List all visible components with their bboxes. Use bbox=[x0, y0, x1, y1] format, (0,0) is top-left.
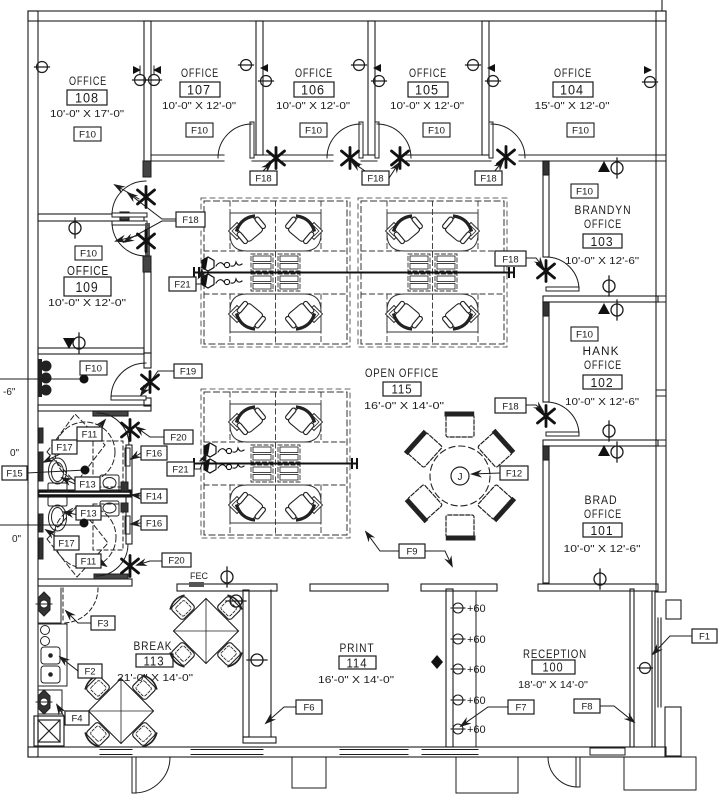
door swing arrows bbox=[115, 185, 140, 241]
svg-text:F14: F14 bbox=[146, 492, 162, 503]
wall: right exterior upper bbox=[656, 11, 666, 592]
door break exterior bbox=[132, 757, 170, 793]
svg-text:RECEPTION: RECEPTION bbox=[523, 649, 587, 661]
grab bars upper bbox=[39, 428, 43, 443]
wall: corridor west below doors bbox=[144, 272, 151, 353]
door restroom lower bbox=[94, 544, 128, 579]
label F1 bbox=[692, 629, 717, 643]
wall: hank/brad divider bbox=[543, 440, 658, 446]
workstation pod upper-left bbox=[201, 198, 350, 347]
svg-text:106: 106 bbox=[301, 83, 325, 98]
svg-text:15'-0" X 12'-0": 15'-0" X 12'-0" bbox=[535, 101, 611, 112]
spine upper pods bbox=[194, 268, 514, 277]
svg-text:OFFICE: OFFICE bbox=[554, 68, 592, 80]
door office 105 bbox=[375, 122, 411, 158]
break table 2 bbox=[84, 674, 159, 749]
svg-text:F2: F2 bbox=[84, 667, 95, 678]
wall: left exterior bbox=[28, 11, 38, 757]
right wall keynote bbox=[643, 66, 658, 88]
wall: open office / reception seg3 bbox=[421, 584, 497, 591]
wall: brandyn/hank divider bbox=[543, 296, 658, 302]
stoop 1 bbox=[292, 757, 326, 788]
label F20 upper bbox=[164, 430, 193, 444]
svg-text:F10: F10 bbox=[428, 126, 445, 137]
label F18 corridor bbox=[176, 212, 205, 227]
label F6 bbox=[296, 700, 322, 714]
wall: reception east bbox=[630, 589, 634, 747]
door corridor upper bbox=[112, 181, 147, 217]
phi above hank bottom wall bbox=[603, 421, 615, 441]
svg-text:16'-0" X 14'-0": 16'-0" X 14'-0" bbox=[364, 401, 445, 412]
label F9 bbox=[399, 544, 425, 558]
label F18 office104 bbox=[475, 171, 502, 185]
svg-text:10'-0" X 12'-6": 10'-0" X 12'-6" bbox=[564, 544, 642, 555]
accessory lower bbox=[121, 503, 128, 512]
svg-text:F17: F17 bbox=[56, 443, 72, 454]
dot leader vestibule bbox=[0, 375, 89, 384]
wall: divider office 107/106 bbox=[256, 21, 263, 155]
jamb dark corridor top bbox=[143, 161, 151, 177]
vestibule coat hooks bbox=[39, 359, 52, 397]
label F11 lower bbox=[76, 554, 101, 568]
svg-text:F8: F8 bbox=[581, 702, 592, 713]
door X marks bbox=[122, 147, 555, 577]
svg-text:F21: F21 bbox=[174, 280, 190, 291]
svg-text:OFFICE: OFFICE bbox=[584, 509, 622, 521]
svg-text:F16: F16 bbox=[146, 519, 162, 530]
reception west screen line bbox=[475, 592, 477, 747]
label F4 bbox=[65, 711, 89, 725]
label break 113 bbox=[117, 641, 194, 684]
door brandyn 103 bbox=[546, 257, 579, 291]
svg-text:10'-0" X 17'-0": 10'-0" X 17'-0" bbox=[50, 109, 125, 120]
wall: restroom top bbox=[38, 405, 151, 411]
mop sink F4 bbox=[36, 690, 62, 714]
svg-text:F6: F6 bbox=[303, 703, 314, 714]
label F8 bbox=[574, 699, 600, 713]
label open office 115 bbox=[364, 368, 445, 412]
svg-text:OFFICE: OFFICE bbox=[69, 76, 107, 88]
round conference table bbox=[407, 414, 514, 538]
svg-text:F13: F13 bbox=[80, 509, 96, 520]
svg-text:OFFICE: OFFICE bbox=[181, 68, 219, 80]
jamb dark corridor bottom bbox=[143, 256, 151, 272]
label F13 lower bbox=[76, 506, 101, 520]
svg-text:F3: F3 bbox=[97, 619, 108, 630]
wall: restroom bottom bbox=[38, 579, 132, 586]
divider 260 symbols bbox=[239, 60, 274, 87]
toilet upper bbox=[48, 458, 67, 492]
room labels bbox=[48, 68, 641, 691]
svg-text:10'-0" X 12'-0": 10'-0" X 12'-0" bbox=[162, 101, 237, 112]
phi above brandyn bottom wall bbox=[603, 276, 615, 296]
svg-text:F18: F18 bbox=[502, 402, 518, 413]
door leaf reception storefront bbox=[590, 748, 625, 755]
wall keynote symbols bbox=[0, 60, 658, 748]
svg-text:100: 100 bbox=[543, 661, 564, 675]
dispenser lower bbox=[125, 516, 130, 534]
svg-text:F21: F21 bbox=[172, 465, 188, 476]
svg-text:OFFICE: OFFICE bbox=[67, 263, 109, 278]
clear floor dashed upper bbox=[93, 441, 123, 487]
label office 107 bbox=[162, 68, 237, 112]
label F19 bbox=[174, 364, 202, 378]
wall: bottom exterior bbox=[28, 747, 666, 757]
svg-text:F13: F13 bbox=[79, 480, 95, 491]
divider 373 symbols bbox=[352, 60, 387, 87]
svg-text:16'-0" X 14'-0": 16'-0" X 14'-0" bbox=[318, 675, 395, 686]
triangle+phi below hank top wall bbox=[598, 300, 623, 320]
label office 104 bbox=[535, 68, 611, 112]
svg-text:107: 107 bbox=[187, 83, 211, 98]
label office 108 bbox=[50, 76, 125, 120]
grab bars lower bbox=[39, 514, 43, 532]
svg-text:F7: F7 bbox=[515, 703, 526, 714]
power pole upper pod b bbox=[202, 274, 242, 288]
svg-text:F18: F18 bbox=[367, 174, 383, 185]
svg-text:F10: F10 bbox=[191, 126, 208, 137]
pier bottom right bbox=[665, 707, 681, 756]
svg-text:21'-0" X 14'-0": 21'-0" X 14'-0" bbox=[117, 673, 194, 684]
wall: bottom of offices 107-104 bbox=[151, 155, 656, 161]
wall: brad office bottom seg4 bbox=[538, 584, 658, 591]
svg-text:OFFICE: OFFICE bbox=[295, 68, 333, 80]
svg-text:F10: F10 bbox=[576, 187, 593, 198]
wall: chase bottom cap bbox=[243, 737, 276, 743]
label F2 bbox=[78, 664, 102, 678]
F10 tag boxes bbox=[74, 123, 598, 375]
keynote reception east wall bbox=[638, 663, 653, 674]
door reception exterior bbox=[548, 757, 580, 787]
svg-text:109: 109 bbox=[76, 280, 99, 296]
wall: divider office 106/105 bbox=[368, 21, 375, 155]
svg-text:F18: F18 bbox=[182, 215, 198, 226]
svg-text:OFFICE: OFFICE bbox=[584, 360, 622, 372]
svg-text:F4: F4 bbox=[71, 714, 82, 725]
grid line top-right corner bbox=[661, 0, 663, 11]
keyed note labels with leaders bbox=[2, 161, 717, 726]
break counter sinks F2 bbox=[38, 624, 67, 686]
label office 105 bbox=[390, 68, 465, 112]
svg-text:F18: F18 bbox=[255, 174, 271, 185]
spine lower pod bbox=[194, 459, 357, 468]
label brad office 101 bbox=[564, 495, 642, 555]
workstation pod lower bbox=[201, 389, 350, 538]
wall: print/reception divider bbox=[446, 589, 453, 747]
diamond print wall bbox=[431, 655, 443, 669]
door closet dashed break bbox=[63, 588, 98, 623]
svg-text:103: 103 bbox=[591, 234, 614, 249]
svg-text:OFFICE: OFFICE bbox=[409, 68, 447, 80]
wall: divider office 105/104 bbox=[482, 21, 489, 155]
jamb dark brad top bbox=[543, 446, 549, 460]
label F18 brandyn bbox=[495, 251, 526, 266]
svg-text:10'-0" X 12'-6": 10'-0" X 12'-6" bbox=[565, 256, 640, 267]
svg-text:BREAK: BREAK bbox=[134, 641, 173, 653]
svg-text:0": 0" bbox=[12, 534, 22, 545]
workstation pod upper-right bbox=[358, 198, 507, 347]
label F21 upper bbox=[169, 277, 196, 291]
phi below 108/109 wall bbox=[69, 218, 81, 238]
wall: hank 102 west bbox=[543, 302, 549, 402]
label office 109 bbox=[48, 263, 127, 309]
wall: office 109 bottom bbox=[38, 348, 144, 354]
svg-text:F10: F10 bbox=[80, 249, 97, 260]
label F13 upper bbox=[75, 477, 100, 491]
svg-text:HANK: HANK bbox=[583, 346, 620, 358]
wall: break/print chase east face bbox=[270, 590, 272, 737]
svg-text:F9: F9 bbox=[406, 547, 417, 558]
label F18 office107 bbox=[250, 171, 277, 185]
turning circle upper restroom bbox=[47, 414, 105, 483]
divider 487 symbols bbox=[466, 60, 501, 87]
label F18 offices 106/105 bbox=[362, 171, 389, 185]
svg-text:18'-0" X 14'-0": 18'-0" X 14'-0" bbox=[518, 680, 588, 691]
wall: break/print chase west bbox=[243, 590, 249, 737]
power pole upper pod a bbox=[202, 257, 242, 271]
svg-text:BRAD: BRAD bbox=[585, 495, 618, 507]
svg-text:J: J bbox=[458, 472, 463, 483]
phi on break top wall bbox=[221, 567, 233, 587]
pier top right bbox=[666, 600, 681, 619]
svg-text:F10: F10 bbox=[305, 126, 322, 137]
turning circle lower restroom bbox=[47, 505, 108, 577]
wall: restroom divider plumbing bbox=[38, 490, 131, 497]
restroom lower fixtures bbox=[39, 497, 130, 577]
accessory upper bbox=[121, 482, 128, 491]
label F11 upper bbox=[77, 427, 102, 441]
window mullion right wall ticks bbox=[656, 155, 666, 446]
svg-text:F10: F10 bbox=[572, 126, 589, 137]
divider 146 symbols bbox=[133, 66, 162, 86]
label F3 bbox=[91, 616, 115, 630]
svg-text:10'-0" X 12'-0": 10'-0" X 12'-0" bbox=[48, 298, 127, 309]
label F7 bbox=[508, 700, 534, 714]
window sill marks bottom wall bbox=[100, 750, 478, 755]
wall: vestibule right lower bbox=[144, 398, 151, 406]
svg-text:F10: F10 bbox=[85, 364, 102, 375]
label F12 bbox=[500, 466, 528, 480]
stoop 3 bbox=[624, 757, 696, 790]
svg-text:0": 0" bbox=[10, 448, 20, 459]
phi on break/print wall bbox=[226, 595, 246, 607]
lavatory upper bbox=[100, 475, 119, 491]
svg-text:F17: F17 bbox=[58, 539, 74, 550]
restroom upper fixtures bbox=[39, 414, 130, 492]
svg-text:F20: F20 bbox=[170, 433, 186, 444]
svg-text:F11: F11 bbox=[82, 430, 98, 441]
svg-text:10'-0" X 12'-6": 10'-0" X 12'-6" bbox=[565, 397, 640, 408]
wall: restroom east bbox=[126, 445, 132, 544]
svg-text:10'-0" X 12'-0": 10'-0" X 12'-0" bbox=[390, 101, 465, 112]
dot F15 bbox=[81, 466, 90, 475]
wall: reception east mullion bbox=[651, 592, 653, 747]
label reception 100 bbox=[518, 649, 588, 691]
plus60 column bbox=[451, 603, 486, 736]
label office 106 bbox=[276, 68, 351, 112]
svg-text:114: 114 bbox=[347, 657, 368, 671]
svg-text:F18: F18 bbox=[480, 174, 496, 185]
power pole lower pod a bbox=[204, 443, 244, 457]
floor box bbox=[34, 716, 64, 746]
phi chase east bbox=[247, 654, 267, 666]
wall: brandyn 103 west bbox=[543, 161, 549, 257]
lavatory lower bbox=[100, 501, 119, 516]
svg-text:F19: F19 bbox=[180, 367, 196, 378]
label F17 lower bbox=[54, 536, 79, 550]
wall: top exterior bbox=[28, 11, 666, 21]
door stop block corridor bbox=[120, 212, 129, 220]
clear floor dashed lower bbox=[93, 504, 123, 550]
label F16 upper bbox=[141, 446, 167, 460]
label F14 bbox=[141, 489, 167, 503]
label F15 bbox=[2, 466, 27, 480]
label F20 lower bbox=[162, 553, 191, 567]
svg-text:101: 101 bbox=[591, 523, 614, 538]
label print 114 bbox=[318, 643, 395, 686]
header dark: restroom top bbox=[93, 411, 128, 416]
svg-text:BRANDYN: BRANDYN bbox=[575, 205, 632, 217]
svg-text:OFFICE: OFFICE bbox=[584, 219, 622, 231]
phi on brad bottom wall bbox=[594, 569, 606, 589]
door office 106 bbox=[327, 122, 363, 158]
svg-text:10'-0" X 12'-0": 10'-0" X 12'-0" bbox=[276, 101, 351, 112]
door vestibule bbox=[111, 363, 146, 400]
storefront glazing east bbox=[657, 618, 659, 707]
svg-text:F10: F10 bbox=[576, 330, 593, 341]
wall: office 108/109 divider bbox=[38, 214, 144, 221]
jamb dark brandyn top bbox=[543, 161, 549, 175]
leader lines bbox=[27, 161, 692, 726]
svg-text:105: 105 bbox=[415, 83, 439, 98]
dot lower restroom with leader bbox=[0, 519, 89, 528]
phi + down triangle office109 bottom bbox=[63, 333, 85, 353]
power pole lower pod b bbox=[204, 459, 244, 473]
svg-text:F20: F20 bbox=[168, 556, 184, 567]
svg-text:113: 113 bbox=[144, 655, 165, 669]
svg-text:115: 115 bbox=[392, 383, 413, 397]
label hank office 102 bbox=[565, 346, 640, 408]
svg-text:F12: F12 bbox=[506, 469, 522, 480]
label F16 lower bbox=[141, 516, 167, 530]
svg-text:F18: F18 bbox=[502, 255, 518, 266]
svg-text:FEC: FEC bbox=[190, 571, 209, 581]
svg-text:102: 102 bbox=[591, 375, 614, 390]
triangle+phi below brandyn top wall bbox=[598, 158, 623, 178]
stoop 2 bbox=[456, 757, 518, 793]
wall: open office / print seg2 bbox=[310, 584, 388, 591]
svg-text:-6": -6" bbox=[3, 387, 16, 398]
label F21 lower bbox=[167, 462, 194, 476]
label brandyn office 103 bbox=[565, 205, 640, 267]
window keynote office108 bbox=[35, 62, 50, 73]
wall: open office / break seg1 bbox=[177, 584, 277, 591]
svg-text:PRINT: PRINT bbox=[340, 643, 375, 655]
wall: vestibule right upper bbox=[144, 353, 151, 368]
wall: brad 101 west bbox=[543, 446, 549, 583]
label F18 hank bbox=[495, 398, 526, 413]
door office 104 bbox=[489, 122, 525, 158]
svg-text:OPEN OFFICE: OPEN OFFICE bbox=[365, 368, 439, 380]
break table 1 bbox=[169, 594, 244, 669]
svg-text:F1: F1 bbox=[699, 632, 710, 643]
toilet lower bbox=[48, 497, 67, 531]
dispenser upper bbox=[125, 448, 130, 466]
door corridor lower bbox=[112, 221, 150, 256]
door hank 102 bbox=[546, 402, 579, 436]
jamb dark hank top bbox=[543, 302, 549, 316]
svg-text:F15: F15 bbox=[6, 469, 22, 480]
svg-text:F10: F10 bbox=[79, 130, 96, 141]
svg-text:108: 108 bbox=[75, 91, 99, 106]
door office 107 bbox=[218, 122, 254, 158]
label F17 upper bbox=[52, 440, 77, 454]
janitor closet F3 bbox=[36, 588, 61, 623]
door restroom upper bbox=[97, 413, 129, 445]
wall: divider office 108/107 bbox=[144, 21, 151, 161]
FEC cabinet bbox=[189, 582, 204, 587]
svg-text:F16: F16 bbox=[146, 449, 162, 460]
triangle+phi below brad top wall bbox=[598, 442, 623, 462]
svg-text:104: 104 bbox=[560, 83, 584, 98]
svg-text:F11: F11 bbox=[81, 557, 97, 568]
